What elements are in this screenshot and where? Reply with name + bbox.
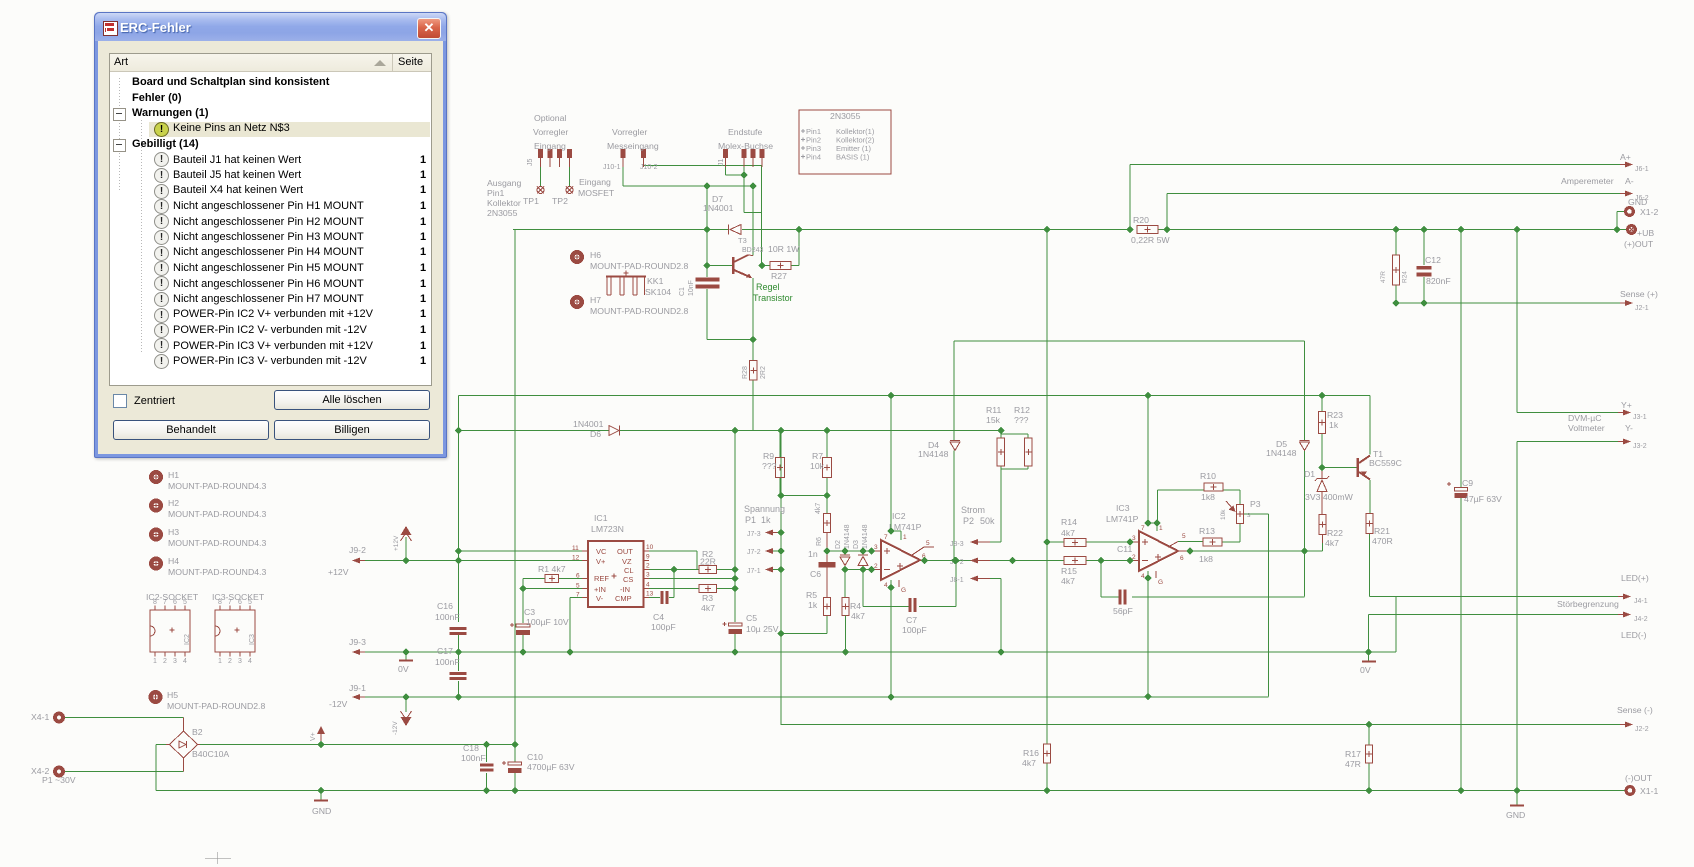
resistor R3 4k7 xyxy=(699,585,717,614)
svg-text:Endstufe: Endstufe xyxy=(728,127,762,137)
svg-text:P1 ~30V: P1 ~30V xyxy=(42,775,76,785)
label Regel Transistor (green) xyxy=(753,282,793,303)
label Stoerbegrenzung xyxy=(1557,599,1619,609)
svg-text:CL: CL xyxy=(624,566,634,575)
svg-text:D2: D2 xyxy=(835,540,842,549)
resistor R7 10k xyxy=(810,451,832,478)
svg-text:1: 1 xyxy=(218,658,222,665)
svg-text:Strom: Strom xyxy=(961,505,985,515)
svg-text:X4-1: X4-1 xyxy=(31,712,50,722)
wire J9-3 0V input xyxy=(0,0,1,1)
resistor R11 15k xyxy=(986,405,1005,466)
svg-text:MOUNT-PAD-ROUND2.8: MOUNT-PAD-ROUND2.8 xyxy=(590,306,688,316)
svg-text:3V3 400mW: 3V3 400mW xyxy=(1305,492,1354,502)
svg-text:4k7: 4k7 xyxy=(1061,528,1075,538)
wire IC1 CS net xyxy=(646,578,735,580)
svg-text:100pF: 100pF xyxy=(651,622,676,632)
svg-text:LED(-): LED(-) xyxy=(1621,630,1647,640)
svg-text:C17: C17 xyxy=(437,646,453,656)
wire (-)OUT bottom rail xyxy=(156,791,1626,806)
svg-text:-12V: -12V xyxy=(329,699,348,709)
svg-text:4k7: 4k7 xyxy=(851,611,865,621)
svg-text:4k7: 4k7 xyxy=(815,503,822,514)
wire Sense(+) net xyxy=(1396,302,1620,304)
svg-text:J5: J5 xyxy=(527,159,534,167)
svg-text:R5: R5 xyxy=(806,590,817,600)
svg-text:2N3055: 2N3055 xyxy=(830,111,861,121)
svg-text:5: 5 xyxy=(183,599,187,606)
svg-text:4k7: 4k7 xyxy=(1022,758,1036,768)
svg-text:TP1: TP1 xyxy=(523,196,539,206)
wire C18/C10 filter caps xyxy=(487,745,516,791)
svg-text:R21: R21 xyxy=(1374,526,1390,536)
resistor R17 47R xyxy=(1345,745,1373,769)
capacitor C17 100nF xyxy=(435,646,467,680)
svg-text:IC2: IC2 xyxy=(892,511,906,521)
svg-text:4k7: 4k7 xyxy=(1061,576,1075,586)
label Ausgang Pin1 Kollektor 2N3055 xyxy=(487,178,521,218)
svg-text:R4: R4 xyxy=(850,601,861,611)
svg-text:OUT: OUT xyxy=(617,547,633,556)
wire R23/T1 regulator chain xyxy=(1322,396,1620,653)
wire J7 external pot P1 xyxy=(773,431,781,634)
capacitor C11 56pF xyxy=(1113,544,1133,616)
svg-text:820nF: 820nF xyxy=(1426,276,1451,286)
capacitor C3 100uF 10V xyxy=(510,607,569,635)
svg-text:???: ??? xyxy=(1014,415,1029,425)
supply bar 0V (right) xyxy=(1360,662,1376,676)
svg-text:7: 7 xyxy=(163,599,167,606)
terminal J9-1 -12V xyxy=(329,683,366,709)
svg-text:47R: 47R xyxy=(1345,759,1361,769)
svg-text:MOSFET: MOSFET xyxy=(578,188,615,198)
svg-text:6: 6 xyxy=(1180,555,1184,562)
svg-text:2: 2 xyxy=(163,658,167,665)
svg-text:V+: V+ xyxy=(310,732,317,741)
svg-text:R9: R9 xyxy=(763,451,774,461)
wire D2/D3 input net xyxy=(827,551,881,607)
svg-text:4: 4 xyxy=(1141,573,1145,580)
svg-text:J7-3: J7-3 xyxy=(747,531,761,538)
svg-text:C3: C3 xyxy=(524,607,535,617)
svg-text:R17: R17 xyxy=(1345,749,1361,759)
resistor R16 4k7 xyxy=(1022,744,1051,768)
resistor R28 2R2 xyxy=(742,361,767,381)
svg-text:12: 12 xyxy=(572,555,580,562)
svg-text:10nF: 10nF xyxy=(688,280,695,296)
svg-text:IC1: IC1 xyxy=(594,513,608,523)
svg-text:Sense (+): Sense (+) xyxy=(1620,289,1658,299)
svg-text:C5: C5 xyxy=(746,613,757,623)
svg-text:3: 3 xyxy=(1132,535,1136,542)
wire C11 feedback xyxy=(1101,561,1305,598)
svg-text:6: 6 xyxy=(173,599,177,606)
IC1 LM723N xyxy=(572,513,654,607)
terminal J3-2 Y- / DVM xyxy=(1568,413,1647,450)
wire R13 to P3 xyxy=(1178,524,1240,543)
wire R17 sense xyxy=(1368,725,1370,791)
svg-text:7: 7 xyxy=(1141,525,1145,532)
wire D4/D5 clamp net xyxy=(954,341,1305,561)
svg-text:H7: H7 xyxy=(590,295,601,305)
svg-text:REF: REF xyxy=(594,574,609,583)
potentiometer P3 10k xyxy=(1220,499,1261,524)
svg-text:R1 4k7: R1 4k7 xyxy=(538,564,566,574)
svg-text:R14: R14 xyxy=(1061,517,1077,527)
supply bar 0V at J9-3 xyxy=(398,661,413,675)
resistor R21 470R xyxy=(1366,514,1393,547)
svg-text:C16: C16 xyxy=(437,601,453,611)
wire IC2 power pins xyxy=(891,531,901,697)
wire R24/C12 output filter xyxy=(1396,230,1424,304)
svg-text:4k7: 4k7 xyxy=(701,603,715,613)
svg-text:11: 11 xyxy=(572,545,579,552)
svg-text:KK1: KK1 xyxy=(647,276,664,286)
svg-text:V-: V- xyxy=(596,594,604,603)
svg-text:100nF: 100nF xyxy=(435,657,460,667)
resistor R22 4k7 xyxy=(1319,515,1343,549)
svg-text:1N4001: 1N4001 xyxy=(573,419,604,429)
svg-text:8: 8 xyxy=(153,599,157,606)
svg-text:P2: P2 xyxy=(963,516,974,526)
svg-text:1k: 1k xyxy=(1329,420,1339,430)
svg-text:C6: C6 xyxy=(810,569,821,579)
wire R5 bottom xyxy=(781,616,827,634)
svg-text:10R 1W: 10R 1W xyxy=(768,244,800,254)
wire IC1 V- to 0V xyxy=(570,598,588,653)
heatsink KK1 SK104 xyxy=(606,271,671,298)
ground symbol GND (bottom center) xyxy=(312,801,331,817)
wire DVM voltmeter Y+ xyxy=(1517,230,1620,413)
wire T3 base/emitter net xyxy=(707,186,753,431)
svg-text:56pF: 56pF xyxy=(1113,606,1133,616)
terminal J7-3 xyxy=(747,530,781,539)
svg-text:R11: R11 xyxy=(986,405,1001,415)
svg-text:1N4001: 1N4001 xyxy=(703,203,734,213)
svg-text:GND: GND xyxy=(312,806,331,816)
wire DVM voltmeter Y- xyxy=(1517,442,1620,791)
svg-text:R10: R10 xyxy=(1200,471,1216,481)
mount pad H7 xyxy=(572,295,688,316)
svg-text:C12: C12 xyxy=(1425,255,1441,265)
zener diode D1 3V3 400mW xyxy=(1304,468,1354,515)
terminal X4-2 xyxy=(31,766,76,785)
svg-text:(-)OUT: (-)OUT xyxy=(1625,773,1653,783)
svg-text:1: 1 xyxy=(903,534,907,541)
svg-text:C18: C18 xyxy=(463,743,479,753)
connector J5 Vorregler Eingang xyxy=(527,113,572,167)
capacitor C9 47uF 63V xyxy=(1447,478,1502,504)
svg-text:R28: R28 xyxy=(742,366,749,379)
svg-text:R24: R24 xyxy=(1402,271,1409,283)
svg-text:2: 2 xyxy=(228,658,232,665)
svg-text:Kollektor: Kollektor xyxy=(487,198,521,208)
transistor T3 BD243 xyxy=(732,236,764,278)
svg-text:R3: R3 xyxy=(702,593,713,603)
svg-text:IC3: IC3 xyxy=(1116,503,1130,513)
svg-text:6: 6 xyxy=(576,573,580,580)
svg-text:1k8: 1k8 xyxy=(1201,492,1215,502)
IC2 socket symbol xyxy=(146,592,199,665)
svg-text:R23: R23 xyxy=(1327,410,1343,420)
svg-text:C7: C7 xyxy=(906,615,917,625)
terminal +UB pad xyxy=(1624,226,1654,249)
resistor R5 1k xyxy=(806,590,831,616)
svg-text:4: 4 xyxy=(248,658,252,665)
svg-text:MOUNT-PAD-ROUND4.3: MOUNT-PAD-ROUND4.3 xyxy=(168,567,266,577)
supply arrow +12V at J9-2 xyxy=(393,526,412,561)
svg-text:1N4148: 1N4148 xyxy=(844,524,851,549)
wire +12V input J9-2 xyxy=(364,537,588,622)
svg-text:Störbegrenzung: Störbegrenzung xyxy=(1557,599,1619,609)
svg-text:H4: H4 xyxy=(168,556,179,566)
svg-text:CMP: CMP xyxy=(615,594,632,603)
svg-text:R12: R12 xyxy=(1014,405,1030,415)
connector J10 Messeingang xyxy=(603,127,659,171)
resistor R1 4k7 xyxy=(538,564,566,583)
svg-text:15k: 15k xyxy=(986,415,1001,425)
svg-text:A+: A+ xyxy=(1620,152,1631,162)
svg-text:1N4148: 1N4148 xyxy=(1266,448,1297,458)
svg-text:H3: H3 xyxy=(168,527,179,537)
svg-text:J10-1: J10-1 xyxy=(603,164,621,171)
terminal X4-1 xyxy=(31,712,63,722)
svg-text:J9-3: J9-3 xyxy=(349,637,366,647)
svg-text:Sense (-): Sense (-) xyxy=(1617,705,1653,715)
svg-text:100nF: 100nF xyxy=(461,753,486,763)
svg-text:J2-1: J2-1 xyxy=(1635,305,1649,312)
svg-text:100nF: 100nF xyxy=(435,612,460,622)
terminal X1-2 GND pad xyxy=(1626,197,1659,217)
svg-text:100pF: 100pF xyxy=(902,625,927,635)
svg-text:J7-2: J7-2 xyxy=(747,549,761,556)
terminal J9-2 +12V xyxy=(328,545,366,577)
svg-text:Eingang: Eingang xyxy=(534,141,566,151)
svg-text:R16: R16 xyxy=(1023,748,1039,758)
svg-text:R7: R7 xyxy=(812,451,823,461)
svg-text:(+)OUT: (+)OUT xyxy=(1624,239,1654,249)
svg-text:P1: P1 xyxy=(745,515,756,525)
svg-text:1k8: 1k8 xyxy=(1199,554,1213,564)
bridge rectifier B2 B40C10A xyxy=(166,718,229,772)
svg-text:100µF 10V: 100µF 10V xyxy=(526,617,569,627)
svg-text:2: 2 xyxy=(646,563,650,570)
svg-text:13: 13 xyxy=(646,591,654,598)
svg-text:6: 6 xyxy=(238,599,242,606)
resistor R15 4k7 xyxy=(1061,557,1086,587)
diode D5 1N4148 xyxy=(1266,439,1310,458)
resistor R4 4k7 xyxy=(842,598,865,653)
capacitor C4 100pF xyxy=(651,591,676,632)
svg-text:10: 10 xyxy=(646,544,654,551)
svg-text:22R: 22R xyxy=(700,557,716,567)
wire A- ammeter net xyxy=(1167,194,1620,230)
svg-text:MOUNT-PAD-ROUND4.3: MOUNT-PAD-ROUND4.3 xyxy=(168,481,266,491)
svg-text:C9: C9 xyxy=(1462,478,1473,488)
svg-text:1: 1 xyxy=(1159,525,1163,532)
svg-text:8: 8 xyxy=(218,599,222,606)
svg-text:7: 7 xyxy=(884,534,888,541)
wire P3 wiper riser xyxy=(1244,514,1269,697)
svg-text:1N4148: 1N4148 xyxy=(862,524,869,549)
svg-text:D6: D6 xyxy=(590,429,601,439)
svg-text:H6: H6 xyxy=(590,250,601,260)
capacitor C5 10u 25V xyxy=(723,613,779,634)
svg-text:0,22R 5W: 0,22R 5W xyxy=(1131,235,1170,245)
svg-text:Pin4: Pin4 xyxy=(806,153,821,162)
label Spannung P1 1k xyxy=(744,504,785,525)
svg-text:3: 3 xyxy=(874,544,878,551)
svg-text:J6-1: J6-1 xyxy=(1635,166,1649,173)
wire D6 reference net xyxy=(459,431,1002,552)
capacitor C10 4700uF 63V xyxy=(502,752,575,773)
svg-text:1k: 1k xyxy=(808,600,818,610)
svg-text:C11: C11 xyxy=(1117,544,1132,554)
svg-text:C10: C10 xyxy=(527,752,543,762)
mount pad H4 xyxy=(151,556,266,577)
label Eingang MOSFET xyxy=(578,177,615,198)
wire R27 to rail xyxy=(762,230,799,266)
wire R9/R7 divider column xyxy=(780,431,827,514)
diode D3 1N4148 xyxy=(853,524,869,569)
svg-text:J2-2: J2-2 xyxy=(1635,726,1649,733)
svg-text:10k: 10k xyxy=(1220,509,1227,520)
diode D2 1N4148 xyxy=(835,524,851,569)
resistor R12 ??? xyxy=(1014,405,1032,466)
svg-text:LM741P: LM741P xyxy=(1106,514,1139,524)
svg-text:Y+: Y+ xyxy=(1621,400,1632,410)
terminal J4-2 LED(-) xyxy=(1618,612,1648,641)
svg-text:GND: GND xyxy=(1506,810,1525,820)
svg-text:D3: D3 xyxy=(853,540,860,549)
svg-text:1: 1 xyxy=(153,658,157,665)
capacitor C12 820nF xyxy=(1417,255,1451,286)
svg-text:TP2: TP2 xyxy=(552,196,568,206)
svg-text:2N3055: 2N3055 xyxy=(487,208,518,218)
svg-text:1N4148: 1N4148 xyxy=(918,449,949,459)
svg-text:B2: B2 xyxy=(192,727,203,737)
svg-text:5: 5 xyxy=(576,583,580,590)
wire IC1 -IN / R3 net xyxy=(646,431,735,653)
svg-text:H1: H1 xyxy=(168,470,179,480)
svg-text:R6: R6 xyxy=(816,537,823,546)
svg-text:J7-1: J7-1 xyxy=(747,568,761,575)
terminal J9-3 0V xyxy=(349,637,366,655)
svg-text:-12V: -12V xyxy=(392,721,399,735)
terminal J2-2 Sense(-) xyxy=(1617,705,1653,733)
resistor R6 4k7 xyxy=(815,503,831,551)
svg-text:VC: VC xyxy=(596,547,607,556)
resistor R13 1k8 xyxy=(1199,526,1222,564)
mount pad H5 xyxy=(151,690,266,711)
svg-text:V+: V+ xyxy=(596,557,606,566)
terminal J7-1 xyxy=(747,567,773,576)
resistor R23 1k xyxy=(1319,410,1344,434)
svg-text:Transistor: Transistor xyxy=(753,293,793,303)
terminal J2-1 Sense(+) xyxy=(1620,289,1658,312)
svg-text:+12V: +12V xyxy=(393,535,400,551)
wire 0V rail xyxy=(364,597,1396,662)
capacitor C6 1n xyxy=(808,549,836,598)
op-amp IC2 LM741P xyxy=(872,511,934,594)
svg-text:50k: 50k xyxy=(980,516,995,526)
svg-text:LED(+): LED(+) xyxy=(1621,573,1649,583)
svg-text:Vorregler: Vorregler xyxy=(612,127,647,137)
2N3055 pinout table xyxy=(799,110,891,174)
svg-text:1k: 1k xyxy=(761,515,771,525)
resistor R9 ??? xyxy=(762,451,785,478)
label Strom P2 50k xyxy=(961,505,995,526)
svg-text:J3-1: J3-1 xyxy=(1633,414,1647,421)
svg-text:3: 3 xyxy=(173,658,177,665)
svg-text:X1-1: X1-1 xyxy=(1640,786,1659,796)
capacitor C16 100nF xyxy=(435,601,467,635)
svg-text:T3: T3 xyxy=(738,236,747,245)
svg-text:C1: C1 xyxy=(679,287,686,296)
svg-text:R22: R22 xyxy=(1327,528,1343,538)
wire IC1 OUT/CL R2 net xyxy=(646,551,735,570)
svg-text:2R2: 2R2 xyxy=(760,366,767,379)
mount pad H2 xyxy=(151,498,266,519)
svg-text:5: 5 xyxy=(248,599,252,606)
wire +12V rail xyxy=(459,396,1371,532)
diode D7 1N4001 xyxy=(703,194,741,235)
terminal J8-1 xyxy=(950,576,990,585)
svg-text:G: G xyxy=(901,587,906,594)
resistor R24 xyxy=(1380,255,1409,285)
wire IC3 power pins xyxy=(1148,523,1157,697)
IC3 socket symbol xyxy=(212,592,265,665)
mount pad H1 xyxy=(151,470,266,491)
mount pad H6 xyxy=(572,250,688,271)
cursor mark xyxy=(205,852,231,864)
terminal J8-3 xyxy=(950,539,990,548)
svg-text:47µF 63V: 47µF 63V xyxy=(1464,494,1502,504)
svg-text:G: G xyxy=(1158,579,1163,586)
svg-text:DVM-µC: DVM-µC xyxy=(1568,413,1601,423)
svg-text:Eingang: Eingang xyxy=(579,177,611,187)
svg-text:Messeingang: Messeingang xyxy=(607,141,659,151)
wire R1/C3 ref node xyxy=(523,579,588,653)
svg-text:Y-: Y- xyxy=(1625,423,1633,433)
svg-text:0V: 0V xyxy=(398,664,409,674)
wire C9 output cap xyxy=(1460,230,1462,791)
svg-text:470R: 470R xyxy=(1372,536,1393,546)
svg-text:SK104: SK104 xyxy=(645,287,671,297)
svg-text:R27: R27 xyxy=(771,271,787,281)
svg-text:-IN: -IN xyxy=(620,585,630,594)
diode D4 1N4148 xyxy=(918,440,960,459)
svg-text:MOUNT-PAD-ROUND2.8: MOUNT-PAD-ROUND2.8 xyxy=(590,261,688,271)
resistor R27 10R 1W xyxy=(768,244,800,281)
svg-text:R15: R15 xyxy=(1061,566,1077,576)
supply symbol V+ xyxy=(310,726,325,741)
svg-text:J8-1: J8-1 xyxy=(950,577,964,584)
svg-text:IC3: IC3 xyxy=(249,634,256,645)
wire C4 compensation xyxy=(646,570,674,598)
svg-text:H5: H5 xyxy=(167,690,178,700)
terminal J6-1 A+ xyxy=(1620,152,1649,173)
svg-text:Pin1: Pin1 xyxy=(487,188,505,198)
supply arrow -12V at J9-1 xyxy=(392,711,412,735)
svg-text:3: 3 xyxy=(238,658,242,665)
transistor T1 BC559C xyxy=(1357,449,1402,480)
svg-text:4: 4 xyxy=(183,658,187,665)
svg-text:Optional: Optional xyxy=(534,113,566,123)
svg-text:J4-2: J4-2 xyxy=(1634,616,1648,623)
svg-text:LM723N: LM723N xyxy=(591,524,624,534)
wire R10 offset feedback xyxy=(1158,490,1241,523)
